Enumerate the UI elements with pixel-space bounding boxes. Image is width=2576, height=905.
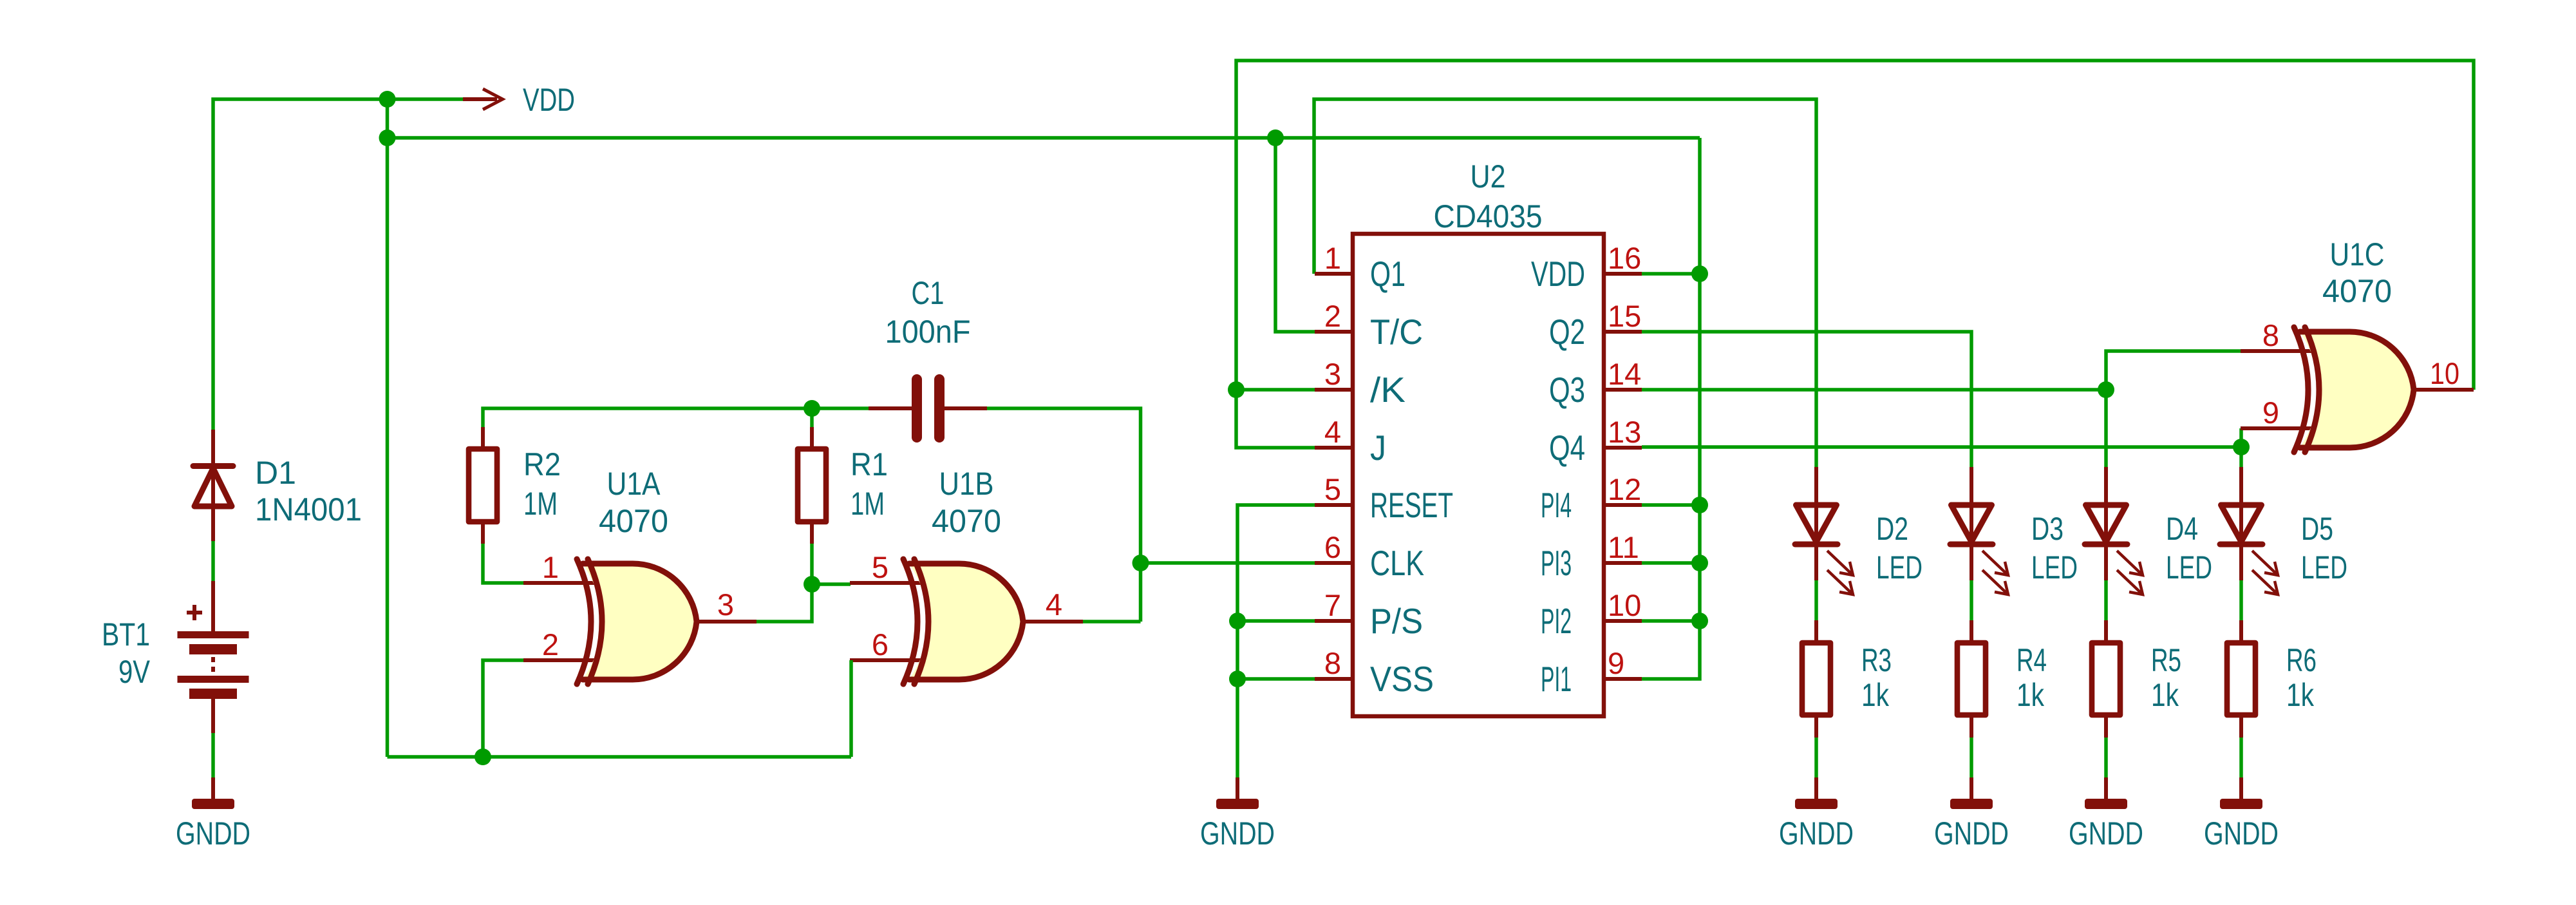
svg-text:10: 10 — [2430, 356, 2459, 390]
svg-text:1: 1 — [542, 550, 559, 584]
label R5 — [2151, 642, 2181, 678]
wire bottom feedback — [388, 755, 852, 759]
svg-text:8: 8 — [2262, 318, 2279, 352]
LED D3 — [1950, 467, 2008, 595]
svg-text:Q1: Q1 — [1370, 254, 1406, 294]
svg-text:14: 14 — [1608, 357, 1641, 391]
label 4070 of U1A — [599, 503, 668, 539]
svg-text:PI2: PI2 — [1541, 601, 1572, 641]
svg-text:U1C: U1C — [2330, 236, 2385, 272]
label LED of D4 — [2166, 549, 2212, 586]
svg-text:LED: LED — [2031, 549, 2078, 586]
pin 4 J — [1324, 415, 1386, 468]
svg-text:R3: R3 — [1861, 642, 1892, 678]
ground GNDD R4 — [1934, 777, 2009, 852]
label BT1 — [102, 616, 150, 653]
pin number 10 — [2430, 356, 2459, 390]
wire U1A output — [757, 544, 851, 622]
svg-text:4: 4 — [1324, 415, 1341, 449]
pin 15 Q2 — [1549, 299, 1641, 352]
node junction bottom wire — [475, 748, 491, 765]
label 1k of R5 — [2151, 677, 2179, 713]
label U1C — [2330, 236, 2385, 272]
pin 12 PI4 — [1541, 472, 1641, 525]
resistor R5 — [2092, 620, 2120, 738]
svg-text:CD4035: CD4035 — [1434, 198, 1543, 234]
label D2 — [1876, 511, 1908, 547]
label 9V — [118, 654, 151, 690]
node junction R1 top — [804, 400, 820, 417]
svg-text:LED: LED — [2301, 549, 2347, 586]
pin 13 Q4 — [1549, 415, 1641, 468]
wire D3 to R4 — [1970, 580, 1973, 620]
pin 2 T/C — [1324, 299, 1423, 352]
svg-text:LED: LED — [1876, 549, 1923, 586]
label D5 — [2301, 511, 2333, 547]
node junction TC — [1267, 129, 1284, 146]
svg-text:6: 6 — [872, 627, 888, 662]
label 4070 of U1B — [932, 503, 1001, 539]
label 1k of R6 — [2286, 677, 2315, 713]
svg-text:1N4001: 1N4001 — [255, 491, 362, 528]
wire Q4 to D5 and U1C — [1642, 428, 2241, 467]
ground GNDD R5 — [2069, 777, 2143, 852]
resistor R4 — [1957, 620, 1986, 738]
label 1N4001 — [255, 491, 362, 528]
wire R2 to pin1 — [483, 544, 523, 583]
power flag VDD arrow — [463, 89, 503, 110]
wire Q1 to D2 — [1314, 99, 1816, 467]
wire D5 to R6 — [2239, 580, 2243, 620]
ground GNDD R3 — [1779, 777, 1854, 852]
svg-text:4: 4 — [1046, 587, 1062, 622]
svg-text:R5: R5 — [2151, 642, 2181, 678]
svg-text:Q2: Q2 — [1549, 312, 1585, 352]
svg-text:4070: 4070 — [2322, 273, 2392, 309]
node junction VDD b — [379, 129, 396, 146]
svg-text:/K: /K — [1370, 370, 1406, 410]
svg-text:6: 6 — [1324, 530, 1341, 564]
svg-text:1M: 1M — [523, 486, 558, 522]
svg-text:8: 8 — [1324, 646, 1341, 680]
LED D2 — [1795, 467, 1853, 595]
label D1 — [255, 455, 296, 491]
svg-text:4070: 4070 — [599, 503, 668, 539]
svg-text:GNDD: GNDD — [1200, 815, 1275, 852]
IC U2 CD4035 box — [1315, 234, 1642, 716]
pin 7 P/S — [1324, 588, 1423, 641]
pin 16 VDD — [1531, 241, 1641, 294]
label U2 — [1471, 158, 1506, 195]
wire pin2 to bottom — [483, 660, 523, 757]
node junction Q3 — [2098, 381, 2114, 398]
svg-text:11: 11 — [1608, 530, 1639, 564]
svg-text:9V: 9V — [118, 654, 151, 690]
svg-text:BT1: BT1 — [102, 616, 150, 653]
ground GNDD battery — [176, 777, 250, 852]
battery BT1 — [178, 581, 249, 733]
wire R6 to ground — [2239, 738, 2243, 777]
node junction VDD a — [379, 91, 396, 108]
wire VDD top horizontal — [213, 99, 463, 430]
pin number 5 — [872, 550, 888, 584]
svg-text:VDD: VDD — [1531, 254, 1585, 294]
diode D1 — [193, 430, 233, 541]
label 1k of R4 — [2017, 677, 2045, 713]
label R2 — [523, 446, 561, 482]
pin 3 /K — [1324, 357, 1406, 410]
svg-text:GNDD: GNDD — [176, 815, 250, 852]
svg-text:1M: 1M — [851, 486, 885, 522]
wire oscillator top — [483, 408, 869, 427]
label 1M of R1 — [851, 486, 885, 522]
label LED of D5 — [2301, 549, 2347, 586]
svg-text:D4: D4 — [2166, 511, 2198, 547]
svg-text:R6: R6 — [2286, 642, 2317, 678]
pin number 9 — [2262, 395, 2279, 430]
svg-text:R4: R4 — [2017, 642, 2047, 678]
label CD4035 — [1434, 198, 1543, 234]
svg-text:13: 13 — [1608, 415, 1641, 449]
svg-text:12: 12 — [1608, 472, 1641, 506]
label LED of D3 — [2031, 549, 2078, 586]
pin number 8 — [2262, 318, 2279, 352]
pin 1 Q1 — [1324, 241, 1406, 294]
svg-text:15: 15 — [1608, 299, 1641, 333]
wire C1 to CLK — [987, 408, 1315, 622]
node junction PI4 — [1691, 497, 1708, 513]
pin number 4 — [1046, 587, 1062, 622]
svg-text:9: 9 — [1608, 646, 1624, 680]
svg-text:5: 5 — [872, 550, 888, 584]
svg-text:2: 2 — [542, 627, 559, 662]
label 4070 of U1C — [2322, 273, 2392, 309]
svg-text:R2: R2 — [523, 446, 561, 482]
label D3 — [2031, 511, 2064, 547]
svg-text:D1: D1 — [255, 455, 296, 491]
resistor R1 — [798, 408, 826, 544]
wire VDD junction column — [386, 99, 390, 757]
label R1 — [851, 446, 888, 482]
pin 11 PI3 — [1541, 530, 1639, 583]
svg-text:C1: C1 — [912, 275, 945, 311]
label VDD — [523, 82, 575, 118]
wire R3 to ground — [1814, 738, 1818, 777]
svg-text:GNDD: GNDD — [2069, 815, 2143, 852]
svg-text:LED: LED — [2166, 549, 2212, 586]
svg-text:GNDD: GNDD — [1934, 815, 2009, 852]
svg-text:3: 3 — [1324, 357, 1341, 391]
ground GNDD R6 — [2204, 777, 2279, 852]
pin number 3 — [717, 587, 734, 622]
pin 6 CLK — [1324, 530, 1424, 583]
svg-text:CLK: CLK — [1370, 543, 1424, 583]
svg-text:P/S: P/S — [1370, 601, 1423, 641]
node junction PI3 — [1691, 555, 1708, 571]
label 1M of R2 — [523, 486, 558, 522]
svg-text:U1B: U1B — [939, 466, 994, 502]
wire VDD PI column — [1642, 138, 1700, 679]
svg-text:3: 3 — [717, 587, 734, 622]
svg-text:VSS: VSS — [1370, 659, 1434, 699]
svg-text:16: 16 — [1608, 241, 1641, 275]
svg-text:9: 9 — [2262, 395, 2279, 430]
svg-text:U1A: U1A — [607, 466, 661, 502]
svg-text:R1: R1 — [851, 446, 888, 482]
svg-text:7: 7 — [1324, 588, 1341, 622]
svg-text:VDD: VDD — [523, 82, 575, 118]
wire RESET PS VSS to ground — [1237, 505, 1315, 777]
label 100nF — [885, 314, 971, 350]
wire Q2 to D3 — [1642, 332, 1971, 467]
svg-text:T/C: T/C — [1370, 312, 1423, 352]
wire feedback top — [1236, 61, 2474, 448]
svg-text:Q4: Q4 — [1549, 428, 1585, 468]
node junction PI2 — [1691, 613, 1708, 629]
svg-text:100nF: 100nF — [885, 314, 971, 350]
op-amp U1C xor gate 4070 — [2241, 327, 2474, 452]
node junction PS — [1229, 613, 1246, 629]
pin number 6 — [872, 627, 888, 662]
wire Q3 to D4 and U1C — [1642, 351, 2241, 467]
svg-text:GNDD: GNDD — [2204, 815, 2279, 852]
wire battery anode — [211, 541, 215, 581]
node junction K — [1228, 381, 1245, 398]
label R4 — [2017, 642, 2047, 678]
pin number 2 — [542, 627, 559, 662]
wire battery cathode — [211, 733, 215, 777]
wire R4 to ground — [1970, 738, 1973, 777]
svg-text:D3: D3 — [2031, 511, 2064, 547]
pin 8 VSS — [1324, 646, 1434, 699]
svg-text:1k: 1k — [2017, 677, 2045, 713]
label U1B — [939, 466, 994, 502]
node junction VDD16 — [1691, 265, 1708, 282]
resistor R6 — [2227, 620, 2255, 738]
svg-text:D2: D2 — [1876, 511, 1908, 547]
svg-text:Q3: Q3 — [1549, 370, 1585, 410]
svg-text:PI3: PI3 — [1541, 543, 1572, 583]
pin 10 PI2 — [1541, 588, 1641, 641]
label U1A — [607, 466, 661, 502]
svg-text:1k: 1k — [1861, 677, 1890, 713]
label D4 — [2166, 511, 2198, 547]
node junction pin5 — [804, 576, 820, 593]
pin 9 PI1 — [1541, 646, 1624, 699]
capacitor C1 — [869, 374, 987, 443]
wire R5 to ground — [2104, 738, 2108, 777]
resistor R2 — [469, 427, 497, 544]
svg-text:J: J — [1370, 428, 1386, 468]
svg-text:10: 10 — [1608, 588, 1641, 622]
svg-text:1k: 1k — [2151, 677, 2179, 713]
svg-text:4070: 4070 — [932, 503, 1001, 539]
ground GNDD U2 — [1200, 777, 1275, 852]
wire VDD branch to U2 — [388, 136, 1700, 140]
node junction VSS — [1229, 671, 1246, 687]
wire D2 to R3 — [1814, 580, 1818, 620]
node junction CLK — [1133, 555, 1149, 571]
op-amp U1B xor gate 4070 — [850, 559, 1083, 684]
pin number 1 — [542, 550, 559, 584]
LED D5 — [2220, 467, 2278, 595]
label C1 — [912, 275, 945, 311]
wire TC — [1275, 138, 1315, 332]
pin 14 Q3 — [1549, 357, 1641, 410]
pin 5 RESET — [1324, 472, 1453, 525]
label R6 — [2286, 642, 2317, 678]
svg-text:5: 5 — [1324, 472, 1341, 506]
svg-text:2: 2 — [1324, 299, 1341, 333]
wire pin6 vertical — [849, 660, 853, 757]
svg-text:GNDD: GNDD — [1779, 815, 1854, 852]
svg-text:U2: U2 — [1471, 158, 1506, 195]
node junction Q4 — [2233, 439, 2250, 455]
op-amp U1A xor gate 4070 — [523, 559, 757, 684]
label R3 — [1861, 642, 1892, 678]
svg-text:PI1: PI1 — [1541, 659, 1572, 699]
svg-text:D5: D5 — [2301, 511, 2333, 547]
label LED of D2 — [1876, 549, 1923, 586]
svg-text:1k: 1k — [2286, 677, 2315, 713]
svg-text:PI4: PI4 — [1541, 485, 1572, 525]
label 1k of R3 — [1861, 677, 1890, 713]
wire D4 to R5 — [2104, 580, 2108, 620]
svg-text:RESET: RESET — [1370, 485, 1453, 525]
svg-text:1: 1 — [1324, 241, 1341, 275]
resistor R3 — [1802, 620, 1830, 738]
LED D4 — [2085, 467, 2143, 595]
